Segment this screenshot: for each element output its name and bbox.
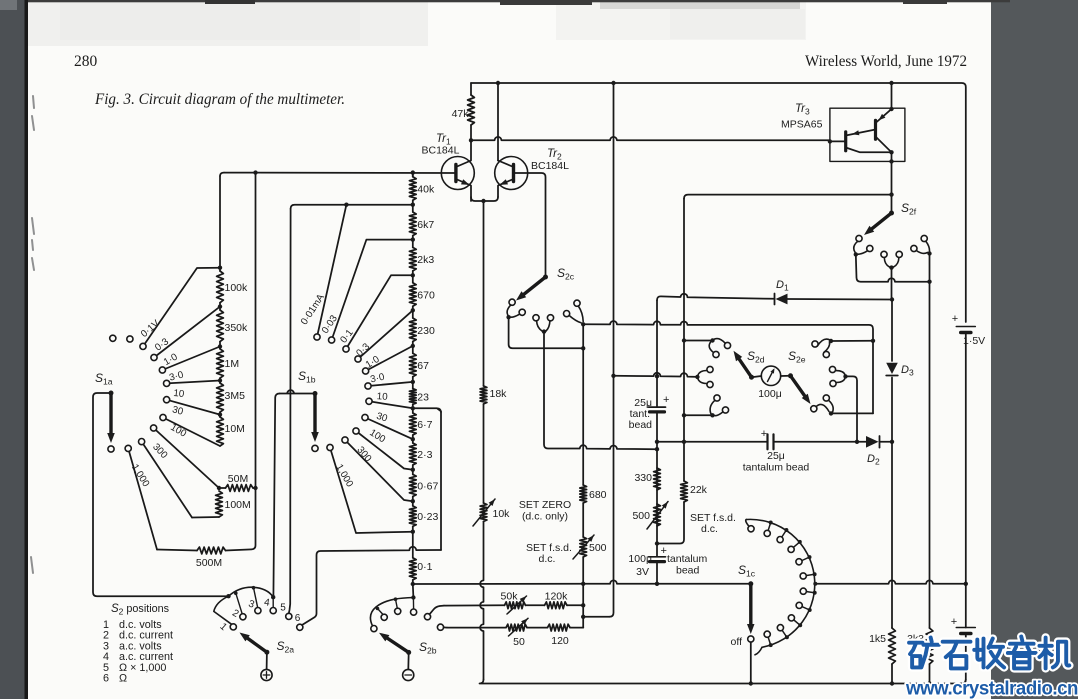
svg-text:50M: 50M: [228, 473, 248, 485]
resistor 350k: [219, 307, 221, 310]
node S2d wiper: [749, 375, 754, 380]
svg-text:100k: 100k: [225, 282, 249, 294]
switch S2a wiper arrow: [244, 636, 267, 652]
resistor 230: [412, 310, 414, 318]
svg-text:10k: 10k: [493, 508, 511, 520]
node chain2 top/input rail: [411, 170, 415, 174]
svg-text:tantalum: tantalum: [667, 553, 708, 565]
node y376 on x657: [655, 374, 659, 378]
node S2c pair34 common: [542, 329, 546, 333]
contact S1c 6: [813, 591, 817, 595]
svg-text:(d.c. only): (d.c. only): [522, 511, 568, 523]
resistor 23: [412, 382, 414, 389]
resistor 2k3: [412, 240, 414, 248]
contact S1a rest: [108, 446, 114, 452]
contact S1b 0·03: [329, 337, 335, 343]
node chain-2 310.3: [411, 308, 415, 312]
switch S1c wiper arrow: [749, 584, 752, 628]
node S2e wiper: [788, 373, 793, 378]
resistor 0·1: [412, 532, 414, 558]
node y194.6 junction: [889, 192, 893, 196]
svg-text:6k7: 6k7: [417, 219, 434, 231]
wire S1a 0·1V range: [143, 268, 220, 347]
node D1 to x892: [890, 297, 894, 301]
svg-text:330: 330: [634, 472, 652, 484]
contact S1a 1,000: [125, 445, 131, 451]
node 0.3 tap: [218, 304, 222, 308]
contact S1c top hook: [748, 526, 754, 532]
contact S1b 10: [366, 398, 372, 404]
contact S2a 6: [297, 624, 303, 630]
svg-text:100M: 100M: [225, 499, 251, 511]
contact S1b 300: [342, 437, 348, 443]
transistor Tr1 collector: [456, 140, 471, 167]
contact S2f 3: [881, 251, 887, 257]
node S2f left line to x929: [927, 280, 931, 284]
svg-text:10: 10: [173, 388, 186, 400]
node bottom/1k5: [890, 681, 894, 685]
wire S1b 300 range: [345, 440, 413, 501]
svg-text:500: 500: [632, 510, 650, 522]
wire S2e bottom arms: [816, 400, 833, 412]
wire chain-2 bypass bracket: [413, 408, 441, 550]
wire Tr2 base to S2c: [514, 173, 546, 277]
wire S2b stub4: [412, 598, 414, 610]
wire x684 column: [683, 199, 685, 442]
capacitor 25u tant bead: [649, 406, 666, 408]
node chain-2 204.7: [411, 203, 415, 207]
svg-text:10: 10: [376, 391, 388, 403]
node S2d column bottom: [682, 413, 686, 417]
wire battery column bottom: [962, 634, 966, 684]
node bottom/off: [749, 681, 753, 685]
node S2d top common: [710, 338, 714, 342]
wire S2e mid arms: [836, 371, 846, 383]
wire S2a stub4: [272, 597, 274, 607]
wire S1a 1,000 range: [128, 448, 157, 549]
contact S1a 30: [160, 414, 166, 420]
pot 10k: [480, 503, 487, 522]
wire S1b 100 range: [356, 431, 413, 470]
wire S1a 0·3 range: [154, 307, 220, 358]
wire S2d top arms: [709, 339, 725, 353]
contact S1a 0·1V: [140, 343, 146, 349]
wire S2b 6 to 50 row: [444, 626, 447, 628]
contact S2f 1: [856, 235, 862, 241]
node 50M right on x255 rail: [253, 486, 257, 490]
transistor Tr1 circle: [441, 157, 474, 190]
contact S1c 7: [808, 608, 812, 612]
resistor 1M: [219, 347, 221, 349]
transistor Tr3b emitter: [846, 130, 876, 136]
wire meter left stub: [752, 376, 762, 377]
contact S1a 1·0: [159, 367, 165, 373]
svg-text:47k: 47k: [452, 108, 470, 120]
svg-text:3V: 3V: [636, 566, 649, 578]
transistor Tr1 base bar: [454, 165, 457, 182]
contact S1a spare1: [110, 335, 116, 341]
resistor 6·7: [412, 408, 414, 413]
node S2c pair12 common: [506, 315, 510, 319]
wire h1 (S2c 5,6 to S2e): [583, 321, 873, 413]
wire S2c pair34 arms: [537, 321, 550, 331]
contact S2b 5: [424, 614, 430, 620]
wire S1c arc bottom hook: [755, 647, 762, 655]
wire y=204.7 (0.01mA feed line): [291, 205, 413, 209]
transistor Tr3b bar: [844, 132, 847, 151]
svg-text:+: +: [663, 394, 669, 406]
resistor 2·3: [412, 439, 414, 443]
wire S2b stub3: [396, 599, 398, 608]
wire S2b stub2: [378, 609, 384, 615]
resistor 10M: [219, 415, 221, 417]
pot 500 (set zero trim): [654, 504, 661, 526]
node battery tap to meter line: [964, 582, 968, 586]
contact S2d 5: [714, 395, 720, 401]
node 1.0 tap: [218, 344, 222, 348]
transistor Tr3 box: [830, 108, 905, 161]
svg-text:Wireless World, June 1972: Wireless World, June 1972: [805, 53, 967, 70]
node S1b wiper: [313, 391, 318, 396]
resistor 100k: [219, 268, 221, 271]
svg-text:120: 120: [551, 635, 569, 647]
contact S2b 4: [411, 609, 417, 615]
node chain-2 275.3: [411, 273, 415, 277]
contact S1b 3·0: [365, 383, 371, 389]
wire 100M bottom stub: [192, 516, 219, 519]
capacitor 25u tantalum bead: [766, 434, 768, 449]
wire y617 to x613: [583, 616, 609, 618]
svg-text:Fig. 3. Circuit diagram of the: Fig. 3. Circuit diagram of the multimete…: [94, 91, 345, 108]
contact S2c 6: [574, 300, 580, 306]
resistor 47k: [470, 83, 472, 95]
svg-text:680: 680: [589, 489, 607, 501]
transistor Tr3b collector: [846, 148, 892, 153]
resistor 0·23: [412, 501, 414, 506]
contact S2a 3: [255, 608, 261, 614]
node Tr3 collectors join: [889, 150, 893, 154]
capacitor 100u 3V: [649, 556, 666, 558]
wire S2b arc: [370, 598, 413, 626]
node chain-2 469.7: [411, 468, 415, 472]
wire S1a 100 range: [154, 428, 219, 488]
contact S1b 1,000: [327, 444, 333, 450]
wire x929 down: [929, 254, 931, 282]
node 0.1V tap: [218, 266, 222, 270]
node 47k/rail-2/Tr1 collector: [469, 138, 473, 142]
contact S2e 1 (wiped): [811, 406, 817, 412]
wire x483 column: [483, 201, 485, 386]
resistor 120: [548, 624, 571, 631]
resistor 0·67: [412, 470, 414, 475]
switch S1a wiper bracket: [93, 393, 229, 596]
wire S2f right pair arms: [916, 242, 929, 254]
contact S2a 5: [286, 613, 292, 619]
wire y=194.6 (S2d column to Tr3 emitter): [684, 195, 892, 199]
node S2f left common: [854, 252, 858, 256]
node chain-2 408.3: [411, 406, 415, 410]
resistor 1k5: [889, 628, 896, 664]
switch S1b wiper arrow: [313, 394, 316, 437]
wire S1c arc top hook: [746, 520, 749, 526]
wire battery column lower: [965, 584, 967, 628]
node S2f wiper: [889, 211, 894, 216]
node 10 tap: [218, 412, 222, 416]
svg-text:2·3: 2·3: [417, 449, 432, 461]
resistor 680: [580, 485, 587, 503]
node Tr3 base on box: [828, 139, 832, 143]
node 25u line left: [655, 440, 659, 444]
svg-text:500M: 500M: [196, 557, 222, 569]
contact S2f 5: [911, 245, 917, 251]
node Tr3 box top: [889, 107, 893, 111]
wire S2c pair34 to h3: [544, 332, 657, 450]
contact S2b 3: [395, 608, 401, 614]
wire S2d bottom tap: [684, 414, 713, 416]
wire S2e mid tap to 25u line: [846, 376, 858, 441]
resistor 120k: [545, 602, 568, 609]
node S2e top common: [829, 339, 833, 343]
contact S2d 1: [724, 342, 730, 348]
contact S2f 6: [921, 235, 927, 241]
wire input rail y=172.6 to Tr1 base: [224, 172, 456, 174]
node S2b wiper: [406, 650, 411, 655]
contact S2c 5: [564, 311, 570, 317]
wire S2c pair56 arms: [569, 306, 583, 323]
resistor 50M: [219, 487, 226, 489]
contact S2d 4: [707, 381, 713, 387]
svg-text:BC184L: BC184L: [531, 160, 569, 172]
contact S2c 1: [509, 299, 515, 305]
wire S2b chain stub: [412, 584, 415, 598]
node x255/input rail: [253, 170, 257, 174]
svg-text:670: 670: [417, 289, 435, 301]
wire S2b wiper to - terminal: [407, 652, 409, 669]
svg-text:bead: bead: [676, 565, 700, 577]
svg-text:+: +: [951, 616, 957, 628]
transistor Tr2 emitter: [498, 179, 514, 197]
wire S2a stub2: [236, 593, 242, 614]
node rail-1/Tr2 collector: [496, 81, 500, 85]
svg-text:22k: 22k: [690, 484, 708, 496]
wire Tr3 to S2f: [891, 152, 893, 213]
node S2e mid tap: [855, 440, 859, 444]
svg-text:+: +: [761, 428, 767, 440]
wire S2e bottom tap: [831, 412, 873, 414]
switch S2b wiper arrow: [384, 636, 409, 652]
svg-text:BC184L: BC184L: [422, 145, 460, 157]
node S2a 4 top: [271, 595, 275, 599]
svg-text:120k: 120k: [545, 591, 569, 603]
contact S1a 100: [151, 425, 157, 431]
wire S2f left pair to x929: [856, 254, 930, 281]
wire S1b 0·3 range: [358, 310, 413, 359]
watermark crystalradio: [909, 638, 939, 668]
node h2 on x583: [581, 346, 585, 350]
switch S1a wiper arrow: [109, 393, 112, 437]
resistor 22k branch: [683, 442, 685, 481]
node S2b arc top: [411, 595, 415, 599]
terminal - (negative input): [403, 669, 414, 680]
contact S1c 8: [798, 623, 802, 627]
contact S2a 4: [270, 608, 276, 614]
wire S2f left pair arms: [854, 241, 868, 254]
wire x892 lower: [891, 442, 893, 628]
contact S2c 3: [533, 315, 539, 321]
svg-text:40k: 40k: [417, 184, 435, 196]
svg-text:d.c.: d.c.: [701, 523, 718, 535]
wire 500M right to x255 rail: [226, 173, 256, 551]
svg-text:100μ: 100μ: [628, 553, 652, 565]
resistor 670: [412, 275, 414, 282]
svg-text:off: off: [731, 636, 743, 648]
svg-text:50k: 50k: [501, 591, 519, 603]
contact S2e 6: [812, 341, 818, 347]
wire S1a 1·0 range: [162, 347, 220, 371]
node S2c wiper: [543, 275, 548, 280]
node S2a arc left: [226, 594, 230, 598]
node bottom/3k3: [927, 681, 931, 685]
wire S2f centre pair arms: [884, 257, 899, 267]
contact S1a 3·0: [164, 380, 170, 386]
wire S2b 5 to 50k row: [430, 606, 445, 615]
svg-text:6: 6: [295, 613, 301, 624]
contact S1b rest: [312, 445, 318, 451]
wire S2a 6 to bypass line: [302, 547, 441, 625]
wire battery column mid: [965, 333, 967, 584]
contact S1b 30: [362, 414, 368, 420]
wire S2a wiper to + terminal: [266, 652, 268, 669]
wire S2a arc: [229, 587, 274, 597]
svg-text:tantalum bead: tantalum bead: [743, 462, 810, 474]
node 50M left / 100 tap: [217, 486, 221, 490]
contact S1b 1·0: [363, 368, 369, 374]
svg-text:+: +: [952, 313, 958, 325]
wire x929 lower: [929, 282, 931, 628]
contact S1c off: [748, 636, 754, 642]
node chain-2 531.7: [411, 530, 415, 534]
left page-edge dark margin: [0, 0, 28, 699]
node 0.01mA line junction: [344, 203, 348, 207]
wire meter common line: [413, 580, 751, 584]
wire off to bottom rail: [750, 642, 752, 683]
wire S2d mid arms: [698, 371, 707, 384]
contact S1b 0·1: [343, 346, 349, 352]
transistor Tr2 circle: [495, 157, 528, 190]
svg-text:18k: 18k: [490, 388, 508, 400]
svg-text:3M5: 3M5: [225, 390, 246, 402]
switch S2d wiper arrow: [737, 356, 752, 377]
wire S2c pair12 arms: [507, 305, 519, 317]
wire S2c pair12 to x583 (h2): [509, 317, 584, 348]
svg-text:SET ZERO: SET ZERO: [519, 499, 571, 511]
meter 100uA movement: [761, 366, 780, 385]
wire row2 50 120: [447, 627, 506, 629]
wire S2f centre to D1 node: [891, 268, 893, 300]
wire meter line right of S1c: [815, 580, 966, 583]
svg-text:6: 6: [103, 673, 109, 685]
node x583 main line: [581, 582, 585, 586]
switch S2c wiper arrow: [521, 277, 546, 297]
node S2e mid common: [843, 374, 847, 378]
resistor 40k: [412, 173, 414, 177]
wire x583 column: [582, 324, 584, 485]
contact S1c 4: [808, 555, 812, 559]
wire S1b 1,000 range: [330, 448, 413, 534]
svg-text:www.crystalradio.cn: www.crystalradio.cn: [905, 678, 1078, 699]
contact S2d 3: [707, 366, 713, 372]
node S2a wiper: [264, 650, 269, 655]
contact S1a spare2: [127, 336, 133, 342]
contact S1b 100: [353, 428, 359, 434]
svg-text:+: +: [661, 545, 667, 557]
wire D1 line: [657, 294, 775, 300]
node S1c arc to right line: [813, 582, 817, 586]
transistor Tr2 collector: [498, 161, 514, 168]
pot 50k: [505, 602, 526, 609]
wire bottom rail: [480, 680, 966, 684]
contact S2a 2: [240, 614, 246, 620]
node chain-2 381.9: [411, 380, 415, 384]
node chain-2 501.2: [411, 499, 415, 503]
node S2e top on x873: [871, 339, 875, 343]
node S1a wiper: [109, 391, 114, 396]
svg-text:2k3: 2k3: [417, 254, 434, 266]
svg-text:50: 50: [513, 636, 525, 648]
wire S2d mid tap (y376): [614, 373, 698, 377]
battery B2 1.5V: [956, 627, 975, 629]
wire S1a 10 range: [167, 400, 220, 415]
node rail-1/x614: [611, 81, 615, 85]
contact S1c 2: [784, 528, 788, 532]
switch S2e wiper arrow: [791, 376, 808, 399]
wire S1a 30 range: [163, 418, 220, 447]
node common emitters: [481, 199, 485, 203]
node x583 y617: [581, 615, 585, 619]
wire S2e top arms: [817, 339, 830, 352]
contact S1a 0·3: [151, 354, 157, 360]
transistor Tr1 emitter: [456, 179, 471, 201]
wire x613 column: [610, 83, 614, 617]
contact S2e 5: [823, 351, 829, 357]
contact S2f 2: [867, 245, 873, 251]
svg-text:MPSA65: MPSA65: [781, 119, 823, 131]
diode D2: [866, 436, 879, 448]
wire S1b 0·1 range: [346, 275, 413, 349]
node x583 120k: [581, 603, 585, 607]
node S1c wiper: [748, 581, 753, 586]
wire common emitter node: [471, 197, 498, 201]
contact S2c 4: [547, 315, 553, 321]
node S2f centre common: [889, 265, 893, 269]
node h3 right: [655, 447, 659, 451]
resistor 330: [654, 468, 661, 490]
wire rail-1 (battery + rail, y=83): [471, 83, 966, 322]
node S2c pair56 common (h1 start): [581, 322, 585, 326]
contact S1c 9: [785, 635, 789, 639]
contact S2e 3: [830, 380, 836, 386]
node 22k top on 25u line: [682, 440, 686, 444]
resistor 67: [412, 346, 414, 353]
wire S1b 0·01mA range: [317, 205, 346, 337]
node Tr3 box bottom: [889, 159, 893, 163]
node chain-2 439.2: [411, 437, 415, 441]
wire Tr2 collector to rail-1: [497, 83, 499, 161]
node x657/22k join: [655, 541, 659, 545]
wire S2d bottom arms: [710, 400, 723, 415]
wire S1b 0·03 range: [332, 240, 413, 340]
node 3.0 tap: [218, 378, 222, 382]
